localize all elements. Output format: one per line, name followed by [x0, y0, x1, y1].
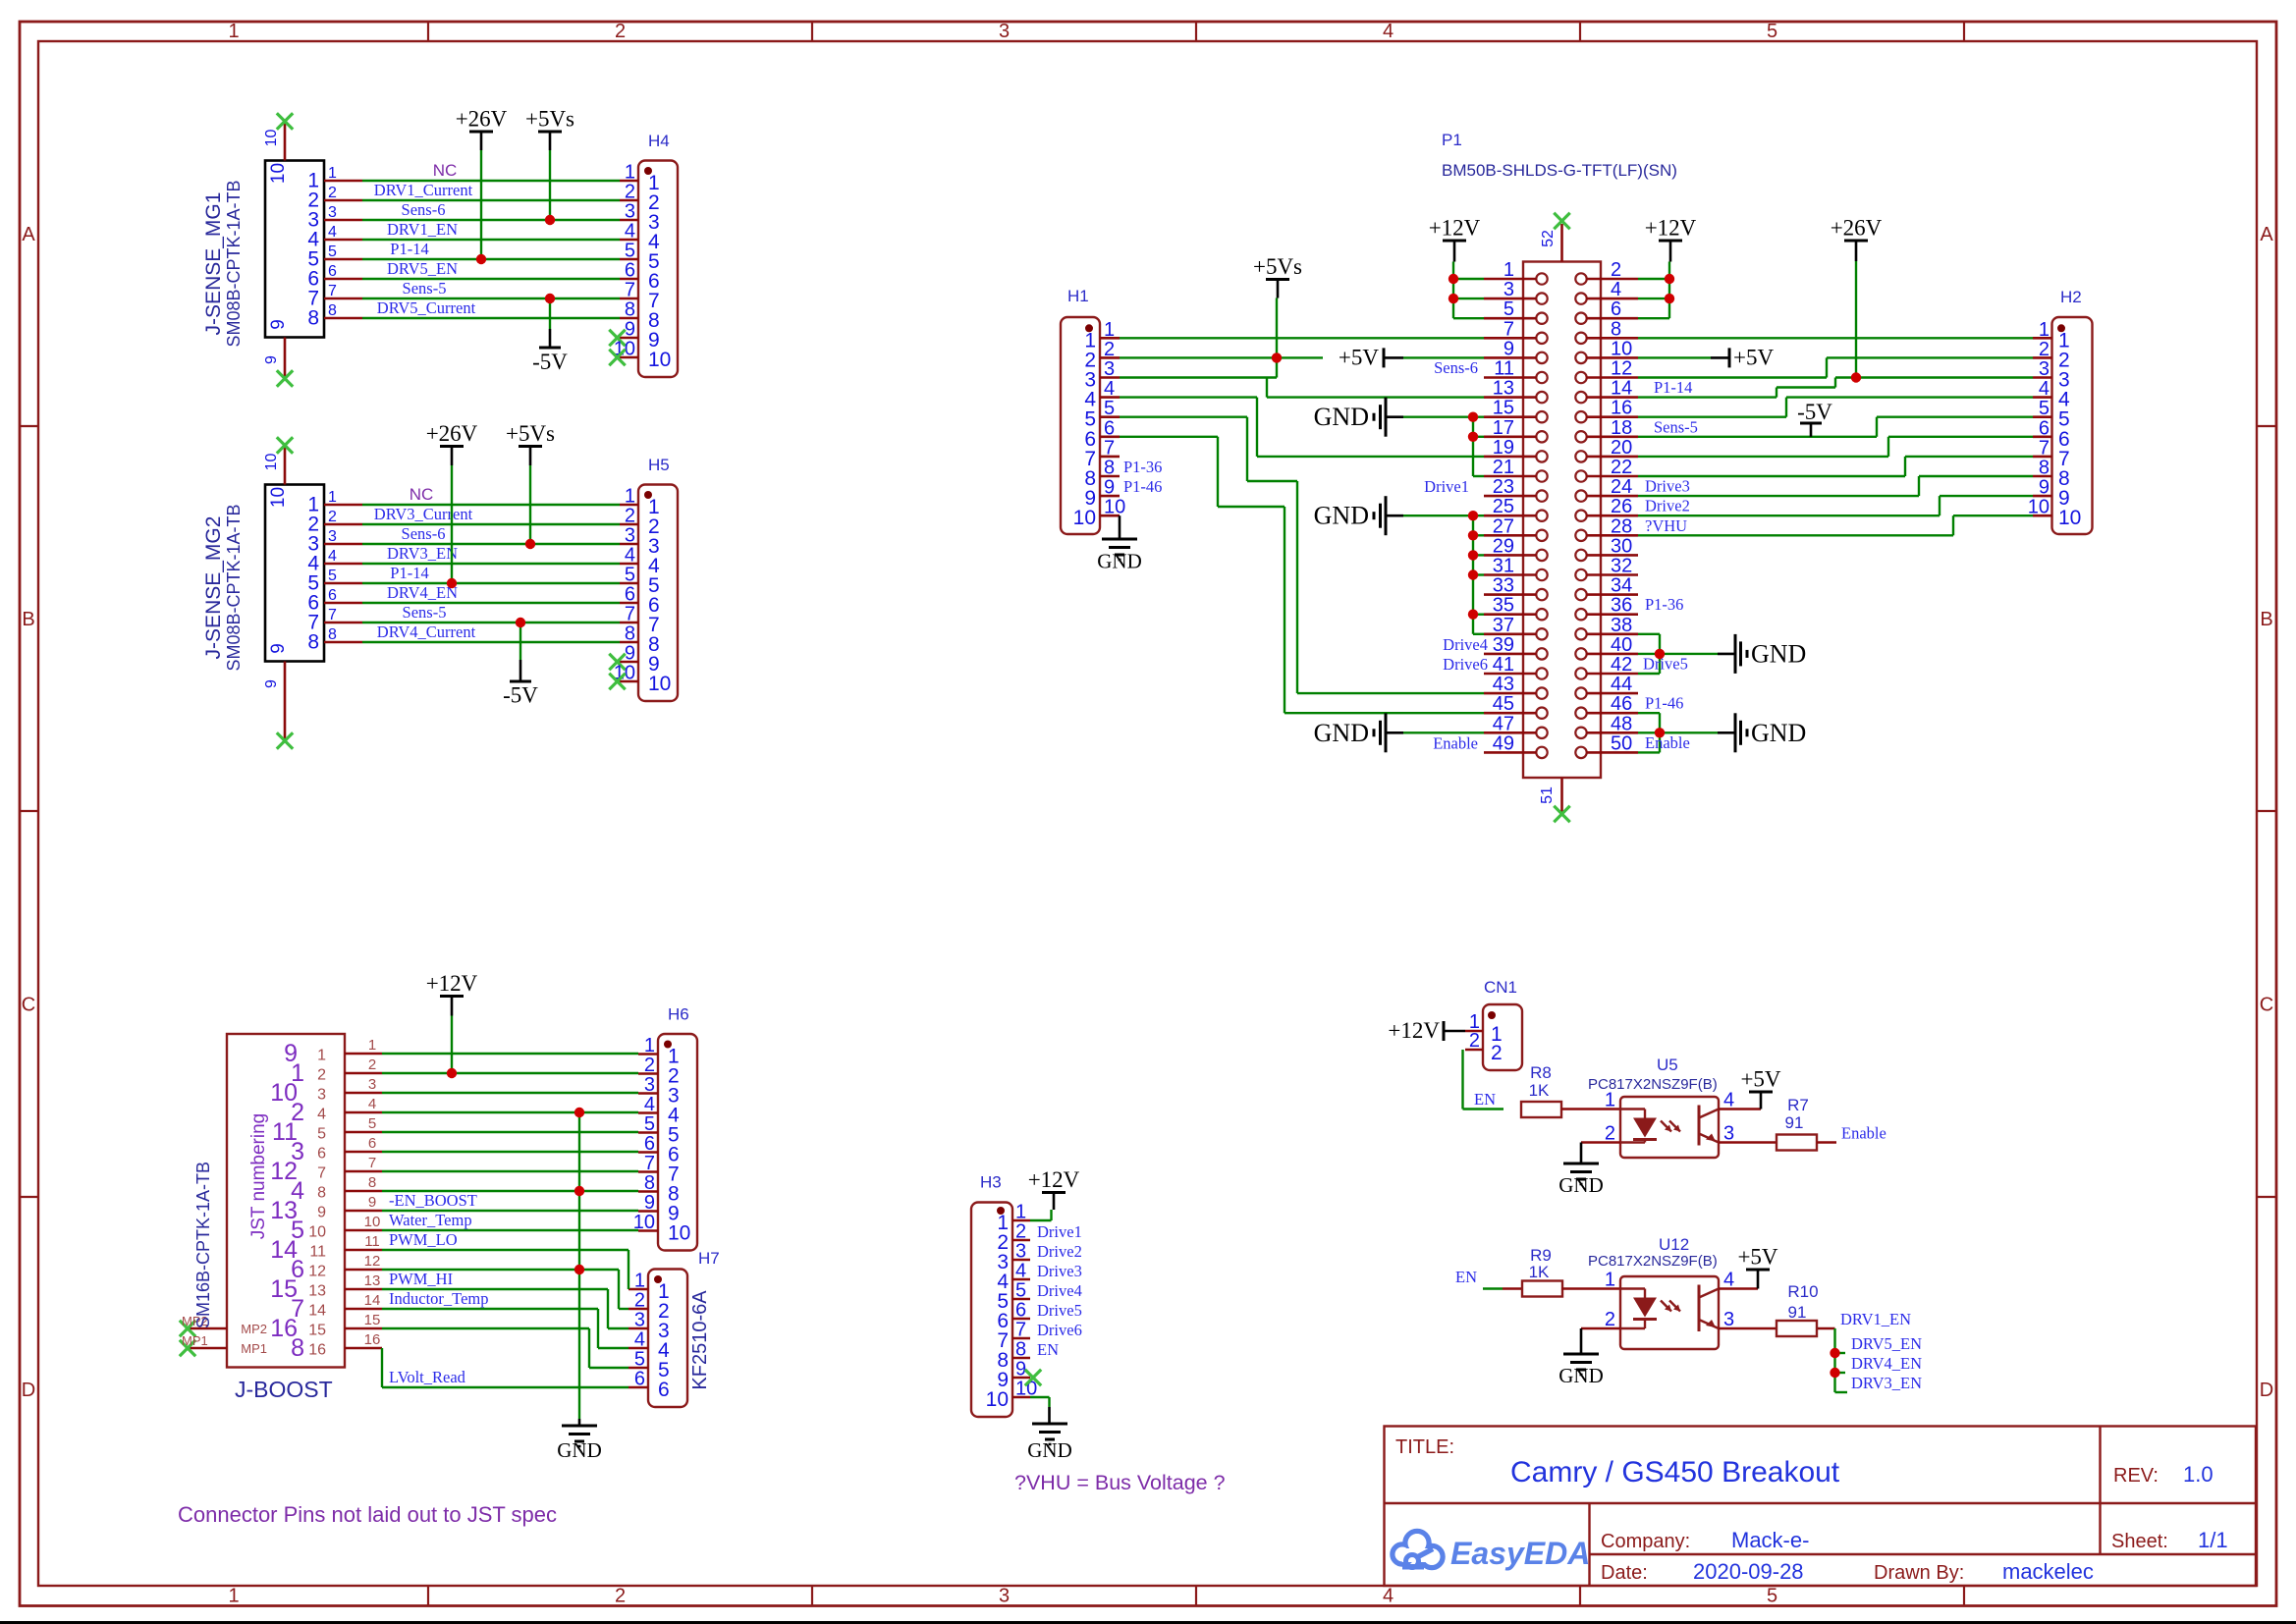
P1 pin 37 stub: [1484, 615, 1537, 636]
svg-text:15: 15: [1493, 398, 1514, 419]
H5 pin 5 stub: [620, 565, 660, 598]
wire J-BOOST pin11 to H7 pin1: [382, 1250, 629, 1289]
svg-text:3: 3: [999, 21, 1010, 42]
J-SENSE_MG1 pin 8 stub: [307, 302, 362, 330]
H3 pin 9 stub: [997, 1359, 1030, 1392]
svg-text:20: 20: [1611, 437, 1632, 459]
P1 pin 34 stub: [1587, 575, 1639, 597]
wire P1 pin16 to H2 pin4: [1638, 398, 2033, 417]
H3 pin 4 stub: [997, 1261, 1030, 1294]
svg-text:5: 5: [644, 1113, 655, 1135]
svg-text:10: 10: [1073, 507, 1096, 529]
junction +12V P1 pin1: [1449, 274, 1458, 284]
wire P1 pin24 to H2 pin8: [1638, 476, 2033, 496]
svg-text:10: 10: [268, 487, 289, 508]
svg-text:19: 19: [1493, 437, 1514, 459]
R7 output lead: [1817, 1141, 1836, 1144]
svg-text:GND: GND: [557, 1438, 602, 1462]
svg-text:DRV3_EN: DRV3_EN: [387, 544, 458, 563]
junction +12V P1 pin2: [1665, 274, 1674, 284]
svg-text:1: 1: [1503, 259, 1514, 281]
CN1 pin 1 stub: [1465, 1011, 1503, 1046]
svg-text:8: 8: [1611, 318, 1621, 340]
P1 pin 47 stub: [1484, 713, 1537, 734]
svg-text:D: D: [22, 1380, 35, 1401]
svg-text:2: 2: [328, 509, 337, 525]
svg-text:2: 2: [634, 1290, 645, 1312]
svg-text:4: 4: [1104, 378, 1115, 400]
svg-text:9: 9: [1104, 477, 1115, 499]
P1 pin 42 stub: [1587, 654, 1639, 676]
junction GND pin48: [1655, 728, 1665, 737]
wire J-BOOST pin13 to H7 pin3: [382, 1289, 629, 1328]
J-SENSE_MG2 pin 9 (bottom, no connect): [263, 643, 293, 748]
J-SENSE_MG2 pin 6 stub: [307, 587, 362, 615]
svg-text:36: 36: [1611, 595, 1632, 617]
junction GND at P1 pin27: [1468, 530, 1478, 540]
svg-text:+12V: +12V: [426, 971, 478, 996]
svg-text:Drive1: Drive1: [1037, 1222, 1082, 1241]
wire H1 pin1 to P1 pin7: [1120, 337, 1484, 339]
svg-text:51: 51: [1539, 786, 1556, 804]
svg-text:H3: H3: [980, 1173, 1002, 1192]
J-SENSE_MG1 pin 2 stub: [307, 185, 362, 212]
svg-text:3: 3: [634, 1310, 645, 1331]
svg-text:4: 4: [1611, 279, 1621, 300]
header H5 body: [638, 485, 678, 702]
H6 pin 6 stub: [638, 1133, 680, 1166]
R9 input lead: [1503, 1287, 1522, 1290]
junction +12V P1 pin4: [1665, 294, 1674, 303]
svg-text:A: A: [22, 224, 35, 245]
svg-text:DRV1_EN: DRV1_EN: [387, 220, 458, 239]
H6 pin 3 stub: [638, 1074, 680, 1108]
frame column numbers: [228, 21, 1777, 1607]
svg-text:+12V: +12V: [1429, 216, 1481, 241]
H2 pin 6 stub: [2033, 417, 2070, 451]
junction +26V to pin14 wire: [1851, 372, 1861, 382]
H2 pin 9 stub: [2033, 477, 2070, 510]
wire P1 pin22 to H2 pin7: [1638, 457, 2033, 476]
junction GND at P1 pin35: [1468, 610, 1478, 620]
wire H1 pin4 to P1 pin19: [1120, 398, 1484, 457]
junction -5V to row7: [516, 618, 525, 627]
H4 pin 2 stub: [620, 182, 660, 215]
junction DRV5_EN: [1830, 1348, 1839, 1358]
wire P1 pin14 to H2 pin3: [1638, 378, 2033, 398]
svg-text:DRV3_EN: DRV3_EN: [1851, 1374, 1922, 1392]
wire H1 pin6 to P1 pin45: [1120, 437, 1484, 713]
J-BOOST pin 9 stub: [317, 1194, 382, 1221]
svg-text:7: 7: [644, 1153, 655, 1174]
svg-text:-5V: -5V: [1797, 400, 1832, 424]
svg-text:45: 45: [1493, 693, 1514, 715]
svg-text:EN: EN: [1474, 1090, 1496, 1109]
svg-text:KF2510-6A: KF2510-6A: [689, 1290, 711, 1390]
svg-text:1: 1: [625, 162, 635, 184]
svg-text:1: 1: [328, 165, 337, 182]
H4 pin 10 no-connect X: [609, 350, 625, 365]
power +5V at U12 pin4: [1719, 1245, 1778, 1289]
junction GND row4: [574, 1108, 584, 1117]
svg-text:mackelec: mackelec: [2002, 1559, 2094, 1584]
wire J-SENSE_MG2 row 3: [362, 543, 620, 545]
svg-text:6: 6: [644, 1133, 655, 1155]
H7 pin 6 stub: [629, 1369, 670, 1402]
svg-text:7: 7: [1503, 318, 1514, 340]
svg-text:8: 8: [625, 299, 635, 321]
H7 pin 5 stub: [629, 1349, 670, 1382]
P1 pin 2 stub: [1587, 259, 1639, 281]
ground GND below H6/H7: [557, 1419, 602, 1462]
H4 pin 10 stub: [614, 339, 672, 372]
J-BOOST pin 12 stub: [308, 1253, 382, 1280]
wire H1 pin3 to P1 pin13 (Sens-6): [1120, 378, 1484, 398]
svg-text:+5V: +5V: [1733, 345, 1774, 369]
P1 pin 19 stub: [1484, 437, 1537, 459]
junction GND at P1 pin17: [1468, 432, 1478, 442]
svg-text:10: 10: [263, 454, 280, 471]
junction DRV4_EN: [1830, 1368, 1839, 1378]
svg-text:U5: U5: [1657, 1056, 1678, 1074]
svg-text:15: 15: [364, 1312, 381, 1328]
P1 pin 46 stub: [1587, 693, 1639, 715]
svg-text:EN: EN: [1455, 1268, 1477, 1286]
svg-text:-5V: -5V: [532, 350, 568, 374]
svg-text:6: 6: [368, 1135, 376, 1152]
svg-text:4: 4: [1383, 1586, 1394, 1607]
svg-text:LVolt_Read: LVolt_Read: [389, 1368, 466, 1386]
H7 pin 2 stub: [629, 1290, 670, 1324]
junction +26V to row5: [447, 578, 457, 588]
svg-text:10: 10: [648, 349, 671, 371]
svg-text:+12V: +12V: [1645, 216, 1697, 241]
P1 pin 29 stub: [1484, 535, 1537, 557]
J-SENSE_MG1 pin 3 stub: [307, 204, 362, 232]
H5 pin 6 stub: [620, 584, 660, 618]
svg-text:7: 7: [2039, 437, 2050, 459]
svg-text:2020-09-28: 2020-09-28: [1693, 1559, 1804, 1584]
svg-text:P1-36: P1-36: [1645, 595, 1683, 614]
svg-text:39: 39: [1493, 634, 1514, 656]
svg-text:Sens-5: Sens-5: [403, 279, 447, 298]
ground GND at U5 pin2: [1558, 1143, 1620, 1198]
J-SENSE_MG2 pin 4 stub: [307, 548, 362, 575]
svg-text:+5V: +5V: [1737, 1245, 1777, 1270]
svg-text:MP1: MP1: [182, 1333, 208, 1348]
P1 pin 24 stub: [1587, 476, 1639, 498]
svg-text:5: 5: [317, 1126, 326, 1143]
P1 pin 14 stub: [1587, 378, 1639, 400]
resistor R10 body: [1777, 1321, 1817, 1336]
svg-text:DRV1_Current: DRV1_Current: [374, 181, 473, 199]
H6 pin 1 stub: [638, 1035, 680, 1068]
svg-text:26: 26: [1611, 496, 1632, 517]
H4 pin 7 stub: [620, 280, 660, 313]
svg-text:EasyEDA: EasyEDA: [1450, 1536, 1590, 1571]
svg-text:3: 3: [1104, 358, 1115, 380]
svg-text:7: 7: [625, 280, 635, 301]
U12 pin3 lead: [1719, 1327, 1777, 1330]
svg-text:H6: H6: [668, 1005, 689, 1024]
H1 pin 5 stub: [1084, 398, 1120, 431]
H2 pin 5 stub: [2033, 398, 2070, 431]
svg-text:11: 11: [309, 1244, 326, 1261]
P1 pin 48 stub: [1587, 713, 1639, 734]
wire EN to R9: [1483, 1287, 1503, 1289]
junction GND row8: [574, 1186, 584, 1196]
wire CN1 pin2 to EN net: [1463, 1050, 1504, 1110]
power flag +12V at CN1 pin1: [1388, 1018, 1465, 1043]
H3 pin 10 stub: [986, 1379, 1038, 1412]
svg-text:Enable: Enable: [1841, 1124, 1886, 1143]
J-SENSE_MG2 pin 3 stub: [307, 528, 362, 556]
svg-text:MP1: MP1: [241, 1341, 267, 1356]
svg-text:4: 4: [2039, 378, 2050, 400]
wires J-BOOST rows 1-10 to H6: [382, 1054, 638, 1230]
connector CN1 body: [1483, 1004, 1522, 1070]
junction +26V to row5: [476, 254, 486, 264]
svg-text:1: 1: [1015, 1202, 1026, 1223]
svg-text:6: 6: [1015, 1300, 1026, 1322]
wire P1 pin12 to H2 pin2: [1638, 357, 2033, 377]
H6 pin 5 stub: [638, 1113, 680, 1147]
P1 pin 1 stub: [1484, 259, 1537, 281]
svg-text:29: 29: [1493, 535, 1514, 557]
svg-text:6: 6: [1104, 417, 1115, 439]
svg-text:1/1: 1/1: [2198, 1528, 2228, 1552]
svg-text:9: 9: [268, 643, 289, 654]
svg-text:Sens-6: Sens-6: [402, 200, 446, 219]
svg-text:Inductor_Temp: Inductor_Temp: [389, 1289, 488, 1308]
svg-text:+12V: +12V: [1028, 1167, 1080, 1192]
P1 pin 51 (bottom, no connect): [1539, 778, 1570, 822]
frame row letters: [22, 224, 2274, 1401]
svg-text:13: 13: [308, 1283, 326, 1300]
svg-text:5: 5: [1767, 1586, 1777, 1607]
junction +5Vs to row3: [545, 215, 555, 225]
H5 pin 9 no-connect X: [609, 654, 625, 670]
svg-text:7: 7: [328, 283, 337, 299]
H4 pin 4 stub: [620, 221, 660, 254]
P1 pin 21 stub: [1484, 457, 1537, 478]
junction GND at P1 pin29: [1468, 550, 1478, 560]
svg-text:PWM_HI: PWM_HI: [389, 1270, 453, 1288]
H3 pin 9 no-connect X: [1025, 1370, 1041, 1385]
H1 pin 3 stub: [1084, 358, 1120, 392]
junction +12V to J-BOOST row2: [447, 1068, 457, 1078]
svg-text:8: 8: [644, 1172, 655, 1194]
H5 pin 10 stub: [614, 663, 672, 696]
svg-text:B: B: [22, 609, 34, 630]
power -5V: [532, 298, 568, 374]
svg-text:27: 27: [1493, 515, 1514, 537]
svg-text:Drive3: Drive3: [1645, 477, 1690, 496]
svg-text:+26V: +26V: [426, 421, 478, 446]
ground flag GND at P1 pin47: [1314, 713, 1484, 752]
H3 pin 5 stub: [997, 1280, 1030, 1314]
J-BOOST pin 16 stub: [308, 1331, 382, 1359]
P1 pin 26 stub: [1587, 496, 1639, 517]
H5 pin 2 stub: [620, 506, 660, 539]
P1 pin 9 stub: [1484, 338, 1537, 359]
svg-text:9: 9: [263, 679, 280, 688]
svg-text:31: 31: [1493, 556, 1514, 577]
svg-text:13: 13: [1493, 378, 1514, 400]
svg-text:1: 1: [228, 21, 239, 42]
J-SENSE_MG1 pin 7 stub: [307, 283, 362, 310]
P1 pin 35 stub: [1484, 595, 1537, 617]
svg-text:Drive2: Drive2: [1037, 1242, 1082, 1261]
svg-text:13: 13: [364, 1272, 381, 1289]
svg-text:1.0: 1.0: [2183, 1462, 2214, 1487]
svg-text:3: 3: [625, 525, 635, 547]
svg-text:?VHU = Bus Voltage ?: ?VHU = Bus Voltage ?: [1014, 1471, 1226, 1494]
svg-text:1K: 1K: [1529, 1081, 1550, 1100]
P1 pin 30 stub: [1587, 535, 1639, 557]
J-SENSE_MG2 pin 8 stub: [307, 626, 362, 654]
wire J-SENSE_MG2 row 6: [362, 602, 620, 604]
svg-text:H5: H5: [648, 456, 670, 474]
svg-text:16: 16: [364, 1331, 381, 1348]
H5 pin 3 stub: [620, 525, 660, 559]
svg-text:40: 40: [1611, 634, 1632, 656]
svg-text:Sens-6: Sens-6: [1434, 358, 1478, 377]
P1 pin 33 stub: [1484, 575, 1537, 597]
wire J-SENSE_MG1 row 8: [362, 317, 620, 319]
power +26V right of P1: [1831, 216, 1883, 378]
R8 lead to U5 pin1: [1561, 1108, 1620, 1110]
P1 pin 45 stub: [1484, 693, 1537, 715]
svg-text:GND: GND: [1558, 1173, 1604, 1197]
J-BOOST pin MP1 (no connect): [180, 1333, 267, 1356]
P1 pin 7 stub: [1484, 318, 1537, 340]
U5 internal LED symbol: [1620, 1110, 1657, 1143]
J-BOOST pin 11 stub: [309, 1233, 382, 1261]
svg-text:8: 8: [2039, 458, 2050, 479]
P1 pin 50 stub: [1587, 732, 1639, 754]
svg-text:2: 2: [328, 185, 337, 201]
DRV enable net bus: [1835, 1328, 1848, 1392]
P1 pin 18 stub: [1587, 417, 1639, 439]
svg-text:GND: GND: [1558, 1364, 1604, 1387]
svg-text:5: 5: [625, 241, 635, 262]
J-BOOST pin 5 stub: [317, 1115, 382, 1143]
svg-text:PC817X2NSZ9F(B): PC817X2NSZ9F(B): [1588, 1253, 1718, 1270]
header H1 body: [1061, 317, 1100, 534]
svg-text:1: 1: [228, 1586, 239, 1607]
J-BOOST pin 8 stub: [317, 1174, 382, 1202]
title block outline: [1385, 1427, 2257, 1587]
P1 pin 22 stub: [1587, 457, 1639, 478]
svg-text:9: 9: [625, 643, 635, 665]
J-BOOST pin 7 stub: [317, 1155, 382, 1182]
H5 pin 4 stub: [620, 545, 660, 578]
svg-text:1: 1: [1605, 1270, 1615, 1291]
H1 pin 1 stub: [1084, 319, 1120, 352]
svg-text:DRV4_EN: DRV4_EN: [1851, 1354, 1922, 1373]
H6 pin 10 stub: [633, 1212, 691, 1245]
svg-text:Sheet:: Sheet:: [2111, 1531, 2168, 1552]
P1 pin 49 stub: [1484, 732, 1537, 754]
svg-text:21: 21: [1493, 457, 1514, 478]
svg-text:+12V: +12V: [1388, 1018, 1440, 1043]
svg-text:GND: GND: [1751, 639, 1806, 668]
svg-text:?VHU: ?VHU: [1645, 516, 1687, 535]
svg-text:14: 14: [364, 1292, 381, 1309]
svg-text:Connector Pins not laid out to: Connector Pins not laid out to JST spec: [178, 1502, 557, 1527]
power flag +5V at P1 pin9: [1339, 345, 1484, 369]
J-SENSE_MG1 pin 9 (bottom, no connect): [263, 319, 293, 386]
svg-text:12: 12: [1611, 358, 1632, 380]
P1 pin 5 stub: [1484, 298, 1537, 320]
svg-text:10: 10: [2028, 497, 2050, 518]
svg-text:1K: 1K: [1529, 1263, 1550, 1281]
H4 pin 6 stub: [620, 260, 660, 294]
H5 pin 1 stub: [620, 486, 660, 519]
svg-text:5: 5: [2039, 398, 2050, 419]
svg-text:+26V: +26V: [1831, 216, 1883, 241]
P1 pin 36 stub: [1587, 595, 1639, 617]
svg-text:Sens-5: Sens-5: [1654, 417, 1698, 436]
svg-text:R10: R10: [1787, 1282, 1818, 1301]
H2 pin 10 stub: [2028, 497, 2082, 530]
svg-text:5: 5: [368, 1115, 376, 1132]
wire J-BOOST pin15 to H7 pin5: [382, 1328, 629, 1368]
J-BOOST pin 13 stub: [308, 1272, 382, 1300]
svg-text:GND: GND: [1097, 550, 1142, 573]
U5 internal transistor symbol: [1699, 1106, 1719, 1146]
svg-text:5: 5: [1015, 1280, 1026, 1302]
svg-text:Drive4: Drive4: [1037, 1281, 1082, 1300]
svg-text:2: 2: [368, 1056, 376, 1073]
power +5Vs at P1: [1253, 254, 1302, 378]
header H6 body: [658, 1034, 697, 1251]
H5 pin 8 stub: [620, 623, 660, 657]
svg-text:50: 50: [1611, 732, 1632, 754]
svg-text:4: 4: [328, 224, 337, 241]
svg-text:10: 10: [308, 1224, 326, 1241]
svg-text:2: 2: [1104, 339, 1115, 360]
power +5V at U5 pin4: [1719, 1067, 1781, 1110]
ground flag GND at P1 pins 15/17/21: [1314, 398, 1484, 476]
H4 pin 3 stub: [620, 201, 660, 235]
svg-text:6: 6: [328, 587, 337, 604]
svg-text:1: 1: [2039, 319, 2050, 341]
svg-text:15: 15: [308, 1323, 326, 1339]
junction GND row12: [574, 1265, 584, 1274]
H6 pin 4 stub: [638, 1094, 680, 1127]
wire P1 pin28 to H2 pin10: [1638, 515, 2033, 535]
P1 pin 17 stub: [1484, 417, 1537, 439]
svg-text:8: 8: [1015, 1339, 1026, 1361]
H5 pin 7 stub: [620, 604, 660, 637]
svg-text:H2: H2: [2060, 288, 2082, 306]
svg-text:9: 9: [317, 1205, 326, 1221]
svg-text:6: 6: [634, 1369, 645, 1390]
P1 pin 38 stub: [1587, 615, 1639, 636]
P1 pin 20 stub: [1587, 437, 1639, 459]
svg-text:REV:: REV:: [2113, 1465, 2159, 1487]
H7 pin 1 marker dot: [654, 1275, 662, 1283]
svg-text:9: 9: [2039, 477, 2050, 499]
svg-text:1: 1: [644, 1035, 655, 1056]
power +5Vs: [506, 421, 555, 544]
svg-text:10: 10: [986, 1388, 1009, 1411]
J-BOOST pin MP2 (no connect): [180, 1314, 267, 1336]
svg-text:SM16B-CPTK-1A-TB: SM16B-CPTK-1A-TB: [193, 1162, 213, 1328]
svg-text:J-SENSE_MG2: J-SENSE_MG2: [202, 516, 225, 660]
